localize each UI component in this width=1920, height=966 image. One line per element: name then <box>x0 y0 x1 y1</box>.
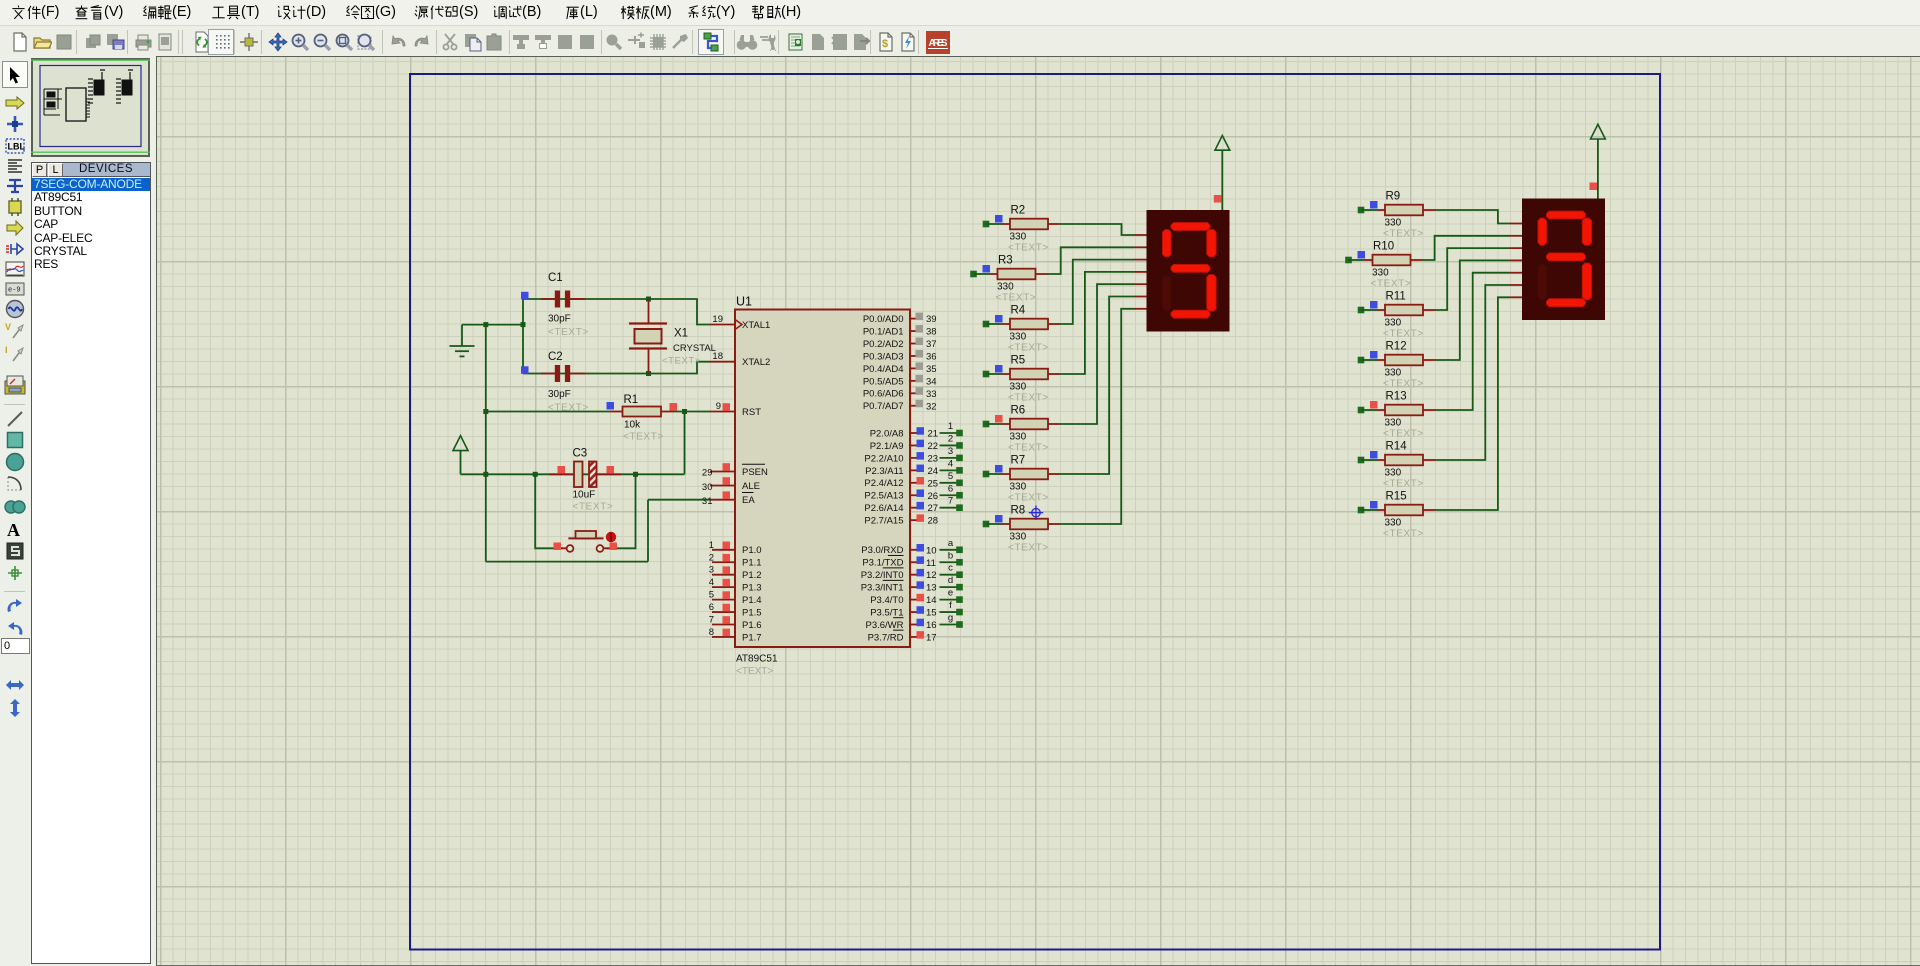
svg-text:I: I <box>5 345 8 355</box>
svg-text:R2: R2 <box>1011 205 1026 217</box>
svg-text:17: 17 <box>926 632 937 643</box>
svg-text:P1.5: P1.5 <box>742 607 762 618</box>
svg-text:P3.6/WR: P3.6/WR <box>865 620 903 631</box>
svg-text:2: 2 <box>948 433 953 444</box>
svg-text:6: 6 <box>709 602 714 613</box>
svg-text:<TEXT>: <TEXT> <box>1008 493 1049 504</box>
svg-text:330: 330 <box>1385 418 1402 429</box>
svg-text:<TEXT>: <TEXT> <box>573 502 614 513</box>
svg-text:11: 11 <box>926 558 936 569</box>
svg-text:21: 21 <box>928 429 939 440</box>
svg-text:4: 4 <box>948 458 953 469</box>
svg-text:<TEXT>: <TEXT> <box>1008 243 1049 254</box>
svg-text:10uF: 10uF <box>573 490 596 501</box>
svg-text:27: 27 <box>928 503 939 514</box>
svg-text:330: 330 <box>1385 218 1402 229</box>
svg-text:19: 19 <box>712 314 723 325</box>
svg-text:AT89C51: AT89C51 <box>736 654 778 665</box>
svg-text:38: 38 <box>926 327 937 338</box>
svg-text:3: 3 <box>948 446 953 457</box>
svg-text:7: 7 <box>948 496 953 507</box>
svg-text:XTAL2: XTAL2 <box>742 357 770 368</box>
svg-text:13: 13 <box>926 583 937 594</box>
svg-text:2: 2 <box>709 552 714 563</box>
svg-text:U1: U1 <box>736 295 752 309</box>
svg-text:<TEXT>: <TEXT> <box>1383 529 1424 540</box>
svg-text:b: b <box>948 550 953 561</box>
svg-text:10k: 10k <box>624 420 641 431</box>
svg-text:36: 36 <box>926 351 937 362</box>
svg-text:R1: R1 <box>624 394 639 406</box>
svg-text:R6: R6 <box>1011 405 1026 417</box>
svg-text:R5: R5 <box>1011 355 1026 367</box>
svg-text:330: 330 <box>1372 268 1389 279</box>
svg-text:30pF: 30pF <box>548 314 571 325</box>
svg-text:29: 29 <box>702 468 713 479</box>
svg-text:P2.4/A12: P2.4/A12 <box>864 478 903 489</box>
svg-text:P2.6/A14: P2.6/A14 <box>864 503 903 514</box>
svg-text:<TEXT>: <TEXT> <box>1008 443 1049 454</box>
svg-text:330: 330 <box>1010 482 1027 493</box>
svg-text:330: 330 <box>1010 432 1027 443</box>
svg-text:XTAL1: XTAL1 <box>742 320 770 331</box>
svg-text:g: g <box>948 613 953 624</box>
svg-text:P1.1: P1.1 <box>742 558 762 569</box>
svg-text:P0.7/AD7: P0.7/AD7 <box>863 401 904 412</box>
svg-text:1: 1 <box>709 540 714 551</box>
svg-text:<TEXT>: <TEXT> <box>662 356 701 367</box>
svg-text:d: d <box>948 575 953 586</box>
svg-text:P0.0/AD0: P0.0/AD0 <box>863 314 904 325</box>
svg-text:22: 22 <box>928 441 939 452</box>
svg-text:a: a <box>948 538 954 549</box>
svg-text:24: 24 <box>928 466 939 477</box>
svg-text:P2.2/A10: P2.2/A10 <box>864 453 903 464</box>
svg-text:P1.6: P1.6 <box>742 620 762 631</box>
svg-text:<TEXT>: <TEXT> <box>1008 393 1049 404</box>
svg-text:330: 330 <box>1010 382 1027 393</box>
svg-text:C3: C3 <box>573 448 588 460</box>
svg-text:CRYSTAL: CRYSTAL <box>673 343 716 354</box>
svg-text:P2.0/A8: P2.0/A8 <box>870 428 904 439</box>
svg-text:P0.2/AD2: P0.2/AD2 <box>863 339 904 350</box>
svg-text:EA: EA <box>742 495 755 506</box>
svg-text:P0.5/AD5: P0.5/AD5 <box>863 376 904 387</box>
svg-text:330: 330 <box>1385 468 1402 479</box>
svg-text:9: 9 <box>716 401 721 412</box>
svg-text:R15: R15 <box>1386 491 1407 503</box>
svg-text:<TEXT>: <TEXT> <box>1008 543 1049 554</box>
svg-text:P3.2/INT0: P3.2/INT0 <box>861 570 904 581</box>
svg-text:<TEXT>: <TEXT> <box>1383 429 1424 440</box>
svg-text:23: 23 <box>928 453 939 464</box>
svg-text:<TEXT>: <TEXT> <box>1383 329 1424 340</box>
svg-text:34: 34 <box>926 376 937 387</box>
svg-text:<TEXT>: <TEXT> <box>1383 229 1424 240</box>
svg-text:ALE: ALE <box>742 481 760 492</box>
svg-text:C1: C1 <box>548 272 563 284</box>
svg-text:31: 31 <box>702 496 713 507</box>
svg-text:C2: C2 <box>548 351 563 363</box>
svg-text:P0.4/AD4: P0.4/AD4 <box>863 364 904 375</box>
svg-text:LBL: LBL <box>8 142 26 152</box>
svg-text:330: 330 <box>1385 518 1402 529</box>
svg-text:<TEXT>: <TEXT> <box>1383 379 1424 390</box>
svg-text:c: c <box>948 563 953 574</box>
svg-text:330: 330 <box>1385 318 1402 329</box>
svg-text:P3.5/T1: P3.5/T1 <box>870 607 903 618</box>
svg-text:6: 6 <box>948 483 953 494</box>
svg-text:R3: R3 <box>998 255 1013 267</box>
svg-text:1: 1 <box>948 421 953 432</box>
svg-text:26: 26 <box>928 491 939 502</box>
svg-text:14: 14 <box>926 595 937 606</box>
svg-text:P1.2: P1.2 <box>742 570 762 581</box>
svg-text:RST: RST <box>742 407 761 418</box>
svg-text:3: 3 <box>709 565 714 576</box>
svg-text:P2.1/A9: P2.1/A9 <box>870 441 904 452</box>
svg-text:12: 12 <box>926 570 937 581</box>
svg-text:5: 5 <box>948 471 953 482</box>
svg-text:R9: R9 <box>1386 191 1401 203</box>
svg-text:5: 5 <box>709 590 714 601</box>
svg-text:R8: R8 <box>1011 505 1026 517</box>
svg-text:<TEXT>: <TEXT> <box>623 432 664 443</box>
svg-text:330: 330 <box>1385 368 1402 379</box>
svg-text:X1: X1 <box>674 328 688 340</box>
svg-text:25: 25 <box>928 478 939 489</box>
svg-text:f: f <box>949 600 952 611</box>
svg-text:<TEXT>: <TEXT> <box>548 327 589 338</box>
svg-text:P0.6/AD6: P0.6/AD6 <box>863 389 904 400</box>
svg-text:<TEXT>: <TEXT> <box>1371 279 1412 290</box>
svg-text:P3.1/TXD: P3.1/TXD <box>862 558 903 569</box>
svg-text:<TEXT>: <TEXT> <box>996 293 1037 304</box>
svg-text:<TEXT>: <TEXT> <box>736 666 773 677</box>
svg-text:R11: R11 <box>1386 291 1406 303</box>
svg-text:P1.0: P1.0 <box>742 545 762 556</box>
svg-text:<TEXT>: <TEXT> <box>548 403 589 414</box>
svg-text:$: $ <box>882 38 888 50</box>
svg-text:7: 7 <box>709 615 714 626</box>
svg-text:PSEN: PSEN <box>742 467 768 478</box>
svg-text:P2.7/A15: P2.7/A15 <box>864 516 903 527</box>
svg-text:R13: R13 <box>1386 391 1407 403</box>
svg-text:R14: R14 <box>1386 441 1408 453</box>
svg-text:330: 330 <box>1010 332 1027 343</box>
svg-text:P3.7/RD: P3.7/RD <box>868 632 904 643</box>
svg-text:P3.4/T0: P3.4/T0 <box>870 595 903 606</box>
svg-text:30: 30 <box>702 482 713 493</box>
svg-text:e: e <box>948 588 953 599</box>
svg-text:330: 330 <box>997 282 1014 293</box>
svg-text:30pF: 30pF <box>548 389 571 400</box>
svg-text:10: 10 <box>926 545 937 556</box>
svg-text:37: 37 <box>926 339 937 350</box>
svg-text:P2.3/A11: P2.3/A11 <box>865 466 903 477</box>
svg-text:P2.5/A13: P2.5/A13 <box>864 491 903 502</box>
svg-text:A: A <box>7 520 20 538</box>
svg-text:A: A <box>770 43 776 52</box>
svg-text:P0.3/AD3: P0.3/AD3 <box>863 351 904 362</box>
svg-text:28: 28 <box>928 516 939 527</box>
svg-text:<TEXT>: <TEXT> <box>1383 479 1424 490</box>
svg-text:39: 39 <box>926 314 937 325</box>
svg-text:P3.3/INT1: P3.3/INT1 <box>861 583 904 594</box>
svg-text:P1.4: P1.4 <box>742 595 762 606</box>
svg-text:P1.3: P1.3 <box>742 583 762 594</box>
svg-text:330: 330 <box>1010 232 1027 243</box>
svg-text:ARES: ARES <box>929 38 948 49</box>
svg-text:16: 16 <box>926 620 937 631</box>
svg-text:R4: R4 <box>1011 305 1026 317</box>
svg-text:4: 4 <box>709 577 714 588</box>
svg-text:V: V <box>5 322 11 332</box>
svg-text:R12: R12 <box>1386 341 1407 353</box>
svg-text:32: 32 <box>926 401 937 412</box>
svg-text:15: 15 <box>926 608 937 619</box>
svg-text:<TEXT>: <TEXT> <box>1008 343 1049 354</box>
svg-text:P0.1/AD1: P0.1/AD1 <box>863 326 904 337</box>
svg-text:33: 33 <box>926 389 937 400</box>
svg-text:e-9: e-9 <box>8 287 21 295</box>
svg-text:35: 35 <box>926 364 937 375</box>
svg-text:P3.0/RXD: P3.0/RXD <box>861 545 903 556</box>
svg-text:330: 330 <box>1010 532 1027 543</box>
svg-text:R7: R7 <box>1011 455 1026 467</box>
svg-text:R10: R10 <box>1373 241 1394 253</box>
svg-text:8: 8 <box>709 627 714 638</box>
svg-text:P1.7: P1.7 <box>742 632 762 643</box>
